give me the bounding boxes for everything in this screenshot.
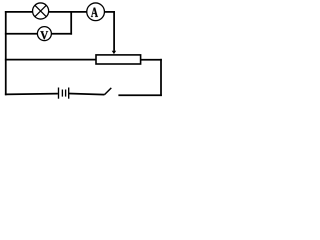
voltmeter V1 bbox=[37, 27, 51, 41]
wire rheostat right lead bbox=[140, 59, 162, 61]
wire lamp to ammeter bbox=[49, 11, 87, 13]
wire slider vertical drop bbox=[113, 11, 115, 51]
battery B1 plate short (mid-right) bbox=[65, 90, 67, 97]
rheostat slider arrow bbox=[112, 51, 117, 54]
lamp L1 bbox=[33, 3, 49, 19]
switch S1 lever (open) bbox=[105, 88, 112, 95]
wire ammeter to top-right corner bbox=[104, 11, 115, 13]
wire voltmeter branch riser to top wire bbox=[70, 11, 72, 35]
battery B1 plate long (right) bbox=[68, 88, 70, 99]
rheostat R1 body bbox=[96, 55, 141, 64]
battery B1 plate long (left) bbox=[58, 88, 60, 99]
wire top-left horizontal (left node to lamp) bbox=[5, 11, 33, 13]
wire left vertical bus bbox=[5, 11, 7, 95]
wire switch to bottom-right corner bbox=[118, 94, 161, 96]
wire bottom-left (left node to battery) bbox=[5, 93, 58, 96]
wire right vertical bbox=[160, 59, 162, 96]
battery B1 plate short (mid-left) bbox=[61, 90, 63, 97]
ammeter A1 bbox=[87, 3, 105, 21]
wire voltmeter left lead bbox=[5, 33, 38, 35]
wire battery to switch bbox=[69, 94, 105, 95]
wire voltmeter right lead bbox=[51, 33, 72, 35]
wire rheostat left lead bbox=[5, 59, 97, 61]
